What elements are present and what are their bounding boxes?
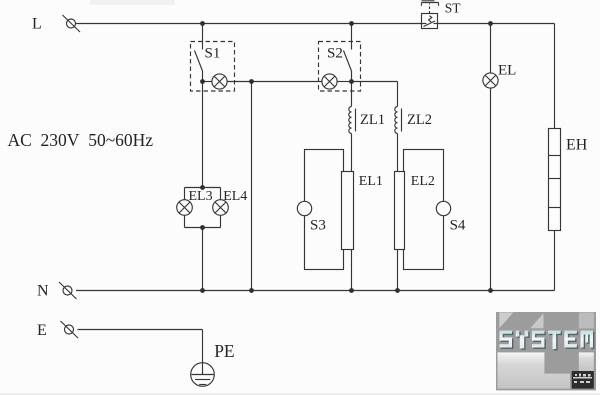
svg-text:EL2: EL2 xyxy=(411,174,435,189)
svg-text:E: E xyxy=(37,322,47,339)
svg-text:S1: S1 xyxy=(205,45,221,61)
svg-text:PE: PE xyxy=(214,341,234,361)
svg-text:ZL2: ZL2 xyxy=(407,112,432,128)
svg-text:ST: ST xyxy=(445,1,462,16)
svg-text:EL: EL xyxy=(498,63,516,79)
svg-text:ZL1: ZL1 xyxy=(360,112,385,128)
svg-text:S2: S2 xyxy=(327,45,343,61)
svg-text:S3: S3 xyxy=(310,218,326,234)
svg-text:EL3: EL3 xyxy=(189,189,213,204)
svg-text:L: L xyxy=(32,16,42,33)
svg-text:AC 230V 50~60Hz: AC 230V 50~60Hz xyxy=(8,130,154,150)
svg-text:EL1: EL1 xyxy=(359,174,383,189)
svg-text:N: N xyxy=(37,283,49,300)
svg-text:EL4: EL4 xyxy=(223,189,247,204)
svg-text:EH: EH xyxy=(566,136,588,153)
svg-text:S4: S4 xyxy=(450,218,466,234)
